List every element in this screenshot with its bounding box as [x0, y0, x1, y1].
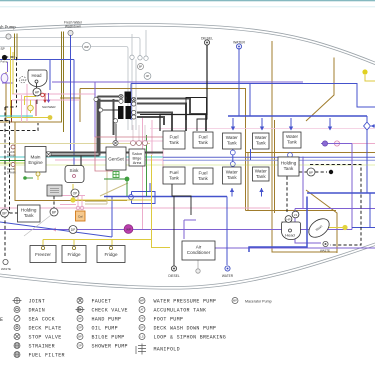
svg-text:DP: DP	[71, 228, 75, 232]
svg-text:FOOT PUMP: FOOT PUMP	[154, 317, 184, 323]
svg-text:Fuel: Fuel	[199, 171, 208, 176]
svg-text:BILGE PUMP: BILGE PUMP	[92, 335, 125, 341]
svg-text:FUEL FILTER: FUEL FILTER	[29, 353, 65, 359]
svg-text:Holding: Holding	[21, 208, 37, 213]
svg-text:MP: MP	[233, 299, 237, 303]
svg-text:Pump: Pump	[1, 60, 8, 64]
svg-text:DIESEL: DIESEL	[201, 37, 213, 41]
svg-text:HP: HP	[35, 91, 39, 95]
svg-text:Tank: Tank	[198, 140, 208, 145]
svg-text:WP: WP	[140, 299, 144, 303]
svg-text:E: E	[0, 317, 3, 323]
svg-text:HAND PUMP: HAND PUMP	[92, 317, 122, 323]
svg-text:Engine: Engine	[28, 160, 43, 165]
svg-text:Water: Water	[255, 135, 268, 140]
svg-text:DP: DP	[140, 326, 144, 330]
svg-text:WP: WP	[126, 228, 131, 232]
svg-text:DRAIN: DRAIN	[7, 170, 16, 174]
svg-text:Head: Head	[31, 73, 42, 78]
svg-text:DRAIN: DRAIN	[29, 308, 46, 314]
svg-text:SHOWER PUMP: SHOWER PUMP	[92, 344, 128, 350]
svg-text:SHOWER: SHOWER	[42, 105, 56, 109]
svg-text:BP: BP	[78, 335, 82, 339]
svg-text:BP: BP	[2, 212, 6, 216]
svg-text:Tank: Tank	[287, 140, 297, 145]
svg-text:AT: AT	[140, 308, 144, 312]
svg-text:FP: FP	[140, 317, 144, 321]
svg-text:Tank: Tank	[284, 166, 294, 171]
svg-text:GenSet: GenSet	[108, 157, 124, 162]
svg-text:LOOP & SIPHON BREAKING: LOOP & SIPHON BREAKING	[154, 335, 227, 341]
svg-text:DECK PLATE: DECK PLATE	[29, 326, 62, 332]
svg-text:Tank: Tank	[227, 141, 237, 146]
svg-text:SP: SP	[1, 47, 5, 51]
svg-text:WP: WP	[84, 45, 89, 49]
svg-text:WATER PRESSURE PUMP: WATER PRESSURE PUMP	[154, 299, 217, 305]
svg-text:Tank: Tank	[227, 175, 237, 180]
svg-text:Air: Air	[196, 245, 202, 250]
svg-text:Fuel: Fuel	[170, 135, 179, 140]
svg-text:STOP VALVE: STOP VALVE	[29, 335, 62, 341]
svg-text:Tank: Tank	[256, 174, 266, 179]
svg-text:BP: BP	[139, 66, 143, 69]
svg-text:SP: SP	[78, 344, 82, 348]
svg-text:LS: LS	[21, 78, 25, 82]
svg-text:Tank: Tank	[198, 176, 208, 181]
svg-text:WATER: WATER	[222, 274, 234, 278]
svg-text:WASTE: WASTE	[320, 249, 330, 253]
svg-text:JOINT: JOINT	[29, 299, 46, 305]
svg-text:CP: CP	[146, 74, 150, 78]
svg-text:Washdown: Washdown	[65, 25, 81, 29]
svg-text:HP: HP	[287, 217, 291, 221]
svg-text:Cal: Cal	[78, 215, 83, 219]
svg-text:SEA COCK: SEA COCK	[29, 317, 55, 323]
svg-text:FAUCET: FAUCET	[92, 299, 112, 305]
svg-text:ACCUMULATOR TANK: ACCUMULATOR TANK	[154, 308, 207, 314]
svg-text:Fridge: Fridge	[67, 252, 80, 257]
svg-text:Conditioner: Conditioner	[187, 250, 211, 255]
svg-text:OP: OP	[73, 192, 78, 196]
svg-text:Fuel: Fuel	[170, 170, 179, 175]
svg-text:Tank: Tank	[169, 176, 179, 181]
svg-text:STRAINER: STRAINER	[29, 344, 55, 350]
svg-text:LS: LS	[294, 213, 298, 217]
svg-text:Water: Water	[255, 169, 268, 174]
svg-text:MANIFOLD: MANIFOLD	[154, 347, 180, 353]
svg-text:WASTE: WASTE	[1, 267, 11, 271]
svg-text:BP: BP	[52, 211, 56, 215]
svg-text:Area: Area	[133, 160, 142, 165]
svg-text:CHECK VALVE: CHECK VALVE	[92, 308, 128, 314]
svg-text:Macerator Pump: Macerator Pump	[245, 299, 272, 303]
svg-text:Holding: Holding	[281, 161, 297, 166]
svg-text:Freezer: Freezer	[35, 252, 51, 257]
svg-text:Head: Head	[285, 233, 295, 238]
svg-text:HP: HP	[78, 317, 82, 321]
svg-text:Water: Water	[226, 170, 239, 175]
svg-text:DIESEL: DIESEL	[168, 274, 180, 278]
svg-text:LS: LS	[140, 335, 143, 339]
svg-text:Fridge: Fridge	[104, 252, 117, 257]
svg-text:BP: BP	[309, 171, 313, 175]
svg-text:WATER: WATER	[233, 41, 245, 45]
svg-text:Tank: Tank	[256, 141, 266, 146]
svg-text:Main: Main	[31, 155, 41, 160]
svg-text:Fuel: Fuel	[199, 135, 208, 140]
svg-text:OP: OP	[78, 326, 82, 330]
svg-text:Water: Water	[286, 134, 299, 139]
svg-text:Tank: Tank	[24, 213, 34, 218]
svg-text:Water: Water	[226, 135, 239, 140]
svg-text:DRAIN: DRAIN	[7, 153, 16, 157]
svg-text:PUMP: PUMP	[126, 95, 128, 102]
svg-text:sh Pump: sh Pump	[0, 25, 16, 30]
svg-text:Sink: Sink	[70, 168, 80, 173]
svg-text:Tank: Tank	[169, 140, 179, 145]
svg-text:OIL PUMP: OIL PUMP	[92, 326, 118, 332]
svg-text:DECK WASH DOWN PUMP: DECK WASH DOWN PUMP	[154, 326, 217, 332]
